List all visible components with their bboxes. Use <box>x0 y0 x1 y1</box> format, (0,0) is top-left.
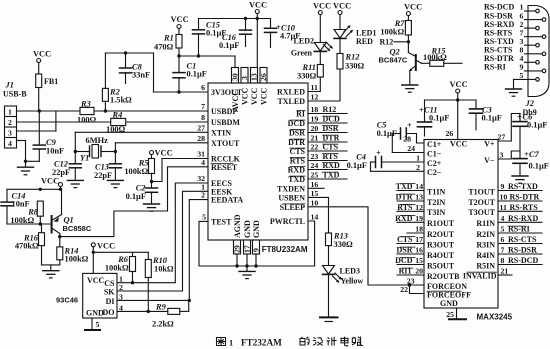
svg-text:USB-B: USB-B <box>3 90 27 99</box>
ground center <box>239 266 255 279</box>
svg-text:BC858C: BC858C <box>63 224 92 233</box>
net stub RS-DTR J2 pin4 <box>484 54 536 63</box>
capacitor C13 22pF <box>94 152 121 181</box>
resistor R8 100k <box>10 201 43 225</box>
capacitor C7 0.1uF polarized <box>513 150 549 176</box>
svg-text:LED3: LED3 <box>340 267 360 276</box>
IC 93C46 <box>56 273 117 318</box>
svg-text:VCC: VCC <box>313 2 331 11</box>
svg-text:+: + <box>376 149 381 158</box>
93C46 pin5 GND <box>85 318 100 330</box>
svg-text:8: 8 <box>201 113 205 122</box>
wire AVCC rail <box>179 56 235 68</box>
svg-text:LED2: LED2 <box>294 37 314 46</box>
net stub RS-CTS J2 pin8 <box>484 46 542 55</box>
svg-text:R4IN: R4IN <box>476 251 495 260</box>
resistor R7 100k <box>380 19 411 42</box>
svg-text:EEDATA: EEDATA <box>211 196 243 205</box>
net stub RS-DSR pin7 <box>498 246 542 255</box>
svg-text:T3OUT: T3OUT <box>468 208 495 217</box>
svg-text:4: 4 <box>8 139 12 148</box>
svg-text:6MHz: 6MHz <box>86 136 109 145</box>
ground under C7 <box>512 176 528 183</box>
svg-text:13: 13 <box>415 193 423 202</box>
resistor R14 100k <box>57 247 89 265</box>
svg-text:20: 20 <box>311 124 319 133</box>
svg-text:R4OUT: R4OUT <box>427 251 455 260</box>
svg-text:470kΩ: 470kΩ <box>15 242 39 251</box>
node VCC rail <box>92 251 95 254</box>
net stub RXD pin19 <box>395 214 424 223</box>
svg-text:10kΩ: 10kΩ <box>154 265 174 274</box>
FT bottom pin box 29 <box>233 240 242 266</box>
resistor R16 470k <box>15 224 45 265</box>
wire FORCEOFF jog <box>410 285 425 294</box>
svg-text:RS-DSR: RS-DSR <box>508 246 537 255</box>
svg-text:RS-RXD: RS-RXD <box>508 214 538 223</box>
node C16 tap <box>244 17 247 20</box>
svg-text:C7: C7 <box>529 150 540 159</box>
svg-text:21: 21 <box>311 134 319 143</box>
capacitor C1 0.1uF <box>173 56 207 92</box>
node Q1 collector / RESET / R14 <box>58 235 61 238</box>
net stub R12 (pin18) <box>308 105 347 114</box>
svg-text:14: 14 <box>415 182 423 191</box>
svg-text:12: 12 <box>415 203 423 212</box>
svg-text:26: 26 <box>259 73 268 81</box>
resistor R6 100k <box>105 252 136 282</box>
resistor R1 470ohm <box>154 34 182 57</box>
resistor R10 10k <box>145 252 174 311</box>
net stub RS-DCD pin8 <box>498 256 542 265</box>
wire DO row <box>117 310 168 312</box>
svg-text:RS-DCD: RS-DCD <box>508 256 538 265</box>
svg-text:VCC: VCC <box>260 87 269 105</box>
wire pin11 to R11 <box>308 77 320 92</box>
svg-text:16: 16 <box>415 246 423 255</box>
VCC symbol above R7 <box>404 3 422 21</box>
node C8 tap <box>124 51 127 54</box>
svg-text:VCC: VCC <box>33 50 51 59</box>
svg-text:1: 1 <box>416 154 420 163</box>
svg-text:V+: V+ <box>484 140 495 149</box>
svg-text:470Ω: 470Ω <box>154 43 174 52</box>
node R5/C2/RCCLK junction <box>150 180 153 183</box>
node R2-USBDP junction <box>104 109 107 112</box>
node GND17 on rail <box>245 264 248 267</box>
svg-text:VCC: VCC <box>249 1 267 10</box>
net stub RS-CTS pin6 <box>498 235 542 244</box>
wire 3V3OUT rail top <box>105 53 208 92</box>
wire C1+ pin28 <box>406 134 424 144</box>
connector J1 USB-B <box>3 81 27 149</box>
svg-text:15: 15 <box>311 189 319 198</box>
ground at J2 pin5 <box>506 89 522 96</box>
svg-text:R5IN: R5IN <box>476 261 495 270</box>
svg-text:VCC: VCC <box>41 177 59 186</box>
svg-text:Yellow: Yellow <box>341 277 364 286</box>
node VCC stem tap <box>256 17 259 20</box>
transistor Q1 BC858C <box>52 189 92 247</box>
svg-text:RS-CTS: RS-CTS <box>508 235 537 244</box>
svg-text:J2: J2 <box>525 99 534 108</box>
svg-text:VCC: VCC <box>87 276 105 285</box>
svg-text:11: 11 <box>500 203 507 212</box>
node AGND on rail <box>235 264 238 267</box>
svg-text:VCC: VCC <box>241 87 250 105</box>
svg-text:100kΩ: 100kΩ <box>65 255 89 264</box>
VCC symbol above FB1 <box>33 50 51 75</box>
node R6/CS junction <box>131 281 134 284</box>
node EEDATA/R9 junction <box>188 299 191 302</box>
svg-text:T2IN: T2IN <box>427 198 445 207</box>
svg-text:DO: DO <box>103 308 115 317</box>
svg-text:10nF: 10nF <box>12 200 30 209</box>
svg-text:VCC: VCC <box>171 15 189 24</box>
DB9 pin circles <box>536 9 546 81</box>
svg-text:9: 9 <box>252 248 261 252</box>
svg-text:30: 30 <box>231 73 240 81</box>
IC U1 FT8U232AM body <box>208 83 308 254</box>
transistor Q2 BC847C <box>379 42 422 85</box>
wire pin16 stub <box>308 187 324 189</box>
wire C2- pin2 <box>371 170 425 172</box>
svg-text:5: 5 <box>501 225 505 234</box>
svg-text:GND: GND <box>252 220 261 238</box>
svg-text:USBEN: USBEN <box>278 193 305 202</box>
svg-text:R1: R1 <box>163 34 174 43</box>
capacitor C4 0.1uF <box>347 149 382 172</box>
net stub RS-TXD J2 pin3 <box>484 37 536 46</box>
resistor R13 330 <box>326 232 354 250</box>
node emitter/VCC <box>59 188 62 191</box>
VCC symbol above LED1 <box>333 2 351 30</box>
svg-text:USBDM: USBDM <box>211 118 240 127</box>
FT right pin labels <box>270 88 306 227</box>
svg-text:3: 3 <box>8 129 12 138</box>
net stub RS-RXD J2 pin2 <box>484 20 536 29</box>
svg-text:100kΩ: 100kΩ <box>380 28 404 37</box>
MAX inside labels <box>427 140 497 308</box>
svg-text:18: 18 <box>415 225 423 234</box>
FT top pin box 3 VCC <box>240 68 249 84</box>
svg-text:AGND: AGND <box>233 214 242 238</box>
svg-text:R3OUT: R3OUT <box>427 240 455 249</box>
svg-text:RS-RI: RS-RI <box>484 63 506 72</box>
net stub RS-RI J2 pin9 <box>484 63 542 72</box>
LED1 RED <box>334 25 376 46</box>
svg-text:0.1µF: 0.1µF <box>482 114 502 123</box>
stub pin18 <box>407 225 424 234</box>
svg-text:FT8U232AM: FT8U232AM <box>262 245 308 254</box>
capacitor C11 0.1uF polarized <box>418 100 450 136</box>
FT bottom pin labels AGND GND GND <box>233 214 261 238</box>
net stub CTS pin17 <box>397 235 424 244</box>
net stub DTR pin13 <box>396 193 424 202</box>
svg-text:0.1µF: 0.1µF <box>126 192 146 201</box>
node C9 ground rail junction <box>24 160 27 163</box>
svg-text:7: 7 <box>201 102 205 111</box>
svg-text:BC847C: BC847C <box>379 56 408 65</box>
resistor R5 100k <box>124 159 154 182</box>
VCC symbol above R5 <box>150 149 173 159</box>
svg-text:GND: GND <box>243 220 252 238</box>
wire USBDM (J1 pin2 row) <box>17 121 209 123</box>
svg-text:VCC: VCC <box>450 80 468 89</box>
svg-text:VCC: VCC <box>155 149 173 158</box>
svg-text:3: 3 <box>500 151 504 160</box>
svg-text:20: 20 <box>415 267 423 276</box>
svg-text:VCC: VCC <box>97 242 115 251</box>
FT bottom pin box 9 <box>252 240 261 266</box>
svg-text:SK: SK <box>104 288 115 297</box>
wire pin26 stem <box>457 100 459 140</box>
svg-text:RESET: RESET <box>211 163 238 172</box>
svg-text:FB1: FB1 <box>44 77 58 86</box>
wire R16/R14 ground rail <box>42 264 60 266</box>
VCC symbol above LED2 <box>313 2 331 43</box>
svg-text:1: 1 <box>8 108 12 117</box>
svg-text:GND: GND <box>86 309 104 318</box>
svg-text:T3IN: T3IN <box>427 208 445 217</box>
svg-text:27: 27 <box>197 123 205 132</box>
net stub RS-TXD pin9 <box>498 182 542 191</box>
wire V- pin3 to C7 <box>498 151 520 160</box>
svg-text:XTOUT: XTOUT <box>211 139 240 148</box>
overline FORCEOFF <box>427 290 461 292</box>
svg-text:16: 16 <box>311 180 319 189</box>
wire EEDATA <box>117 200 208 301</box>
wire C2+ pin1 <box>382 161 425 163</box>
svg-text:RS-DTR: RS-DTR <box>510 193 540 202</box>
svg-text:INVALID: INVALID <box>463 271 497 280</box>
wire MAX VCC rail <box>425 99 477 101</box>
wire V+ pin27 to C6 <box>498 114 521 142</box>
MAX left cap pin numbers <box>403 135 420 172</box>
net stub DSR pin16 <box>396 246 424 255</box>
svg-text:12: 12 <box>311 93 319 102</box>
svg-text:R12: R12 <box>345 53 360 62</box>
VCC symbol above MAX <box>450 80 468 100</box>
FT top pin box 13 VCC <box>250 68 259 84</box>
capacitor C15 0.1uF <box>193 19 227 57</box>
svg-text:R1OUT: R1OUT <box>427 219 455 228</box>
VCC symbol at Q1 emitter <box>41 177 63 190</box>
svg-text:MAX3245: MAX3245 <box>477 313 513 322</box>
FT top pin box 30 AVCC <box>231 68 240 84</box>
svg-text:19: 19 <box>415 214 423 223</box>
svg-text:TXLED: TXLED <box>277 97 305 106</box>
svg-text:330Ω: 330Ω <box>297 72 317 81</box>
node VCC stem on rail <box>456 98 459 101</box>
net stub RS-RTS pin11 <box>498 203 542 212</box>
svg-text:5: 5 <box>520 71 524 80</box>
wire VCC stem to pin 13 <box>256 19 258 68</box>
svg-text:2: 2 <box>201 191 205 200</box>
svg-text:25: 25 <box>446 310 454 319</box>
net stub RI1 pin20 <box>397 267 424 276</box>
wire J2 pin5 to ground <box>514 71 536 89</box>
crystal Y1 6MHz <box>75 136 115 162</box>
svg-text:T1IN: T1IN <box>427 187 445 196</box>
svg-text:9: 9 <box>501 182 505 191</box>
svg-text:+: + <box>407 121 412 130</box>
net stub RTS (pin23) <box>308 152 347 161</box>
svg-text:R9: R9 <box>155 303 167 312</box>
LED2 Green <box>291 37 333 58</box>
svg-text:6: 6 <box>201 83 205 92</box>
net stub RS-RXD pin4 <box>498 214 542 223</box>
svg-text:26: 26 <box>446 129 454 138</box>
svg-text:C2+: C2+ <box>427 159 442 168</box>
wire Q1 base row <box>7 223 52 225</box>
wire Q1 top rail <box>7 188 61 190</box>
net stub RS-DCD J2 pin1 <box>484 3 536 12</box>
svg-text:GND: GND <box>440 299 458 308</box>
wire J1 pin3 to D+ riser <box>17 111 56 131</box>
ferrite bead FB1 <box>36 74 59 111</box>
svg-text:T2OUT: T2OUT <box>468 198 495 207</box>
svg-text:C2−: C2− <box>427 168 442 177</box>
net stub TXD pin14 <box>396 182 424 191</box>
capacitor C2 0.1uF <box>126 182 158 204</box>
svg-text:0.1µF: 0.1µF <box>377 129 397 138</box>
overlines FT right labels <box>283 111 305 204</box>
svg-text:5: 5 <box>202 212 206 221</box>
resistor R15 100k <box>422 47 463 67</box>
svg-text:2: 2 <box>119 283 123 292</box>
resistor R3 100ohm (series D+) <box>77 99 97 124</box>
node R1/C1/AVCC-rail junction <box>177 54 180 57</box>
resistor R11 330 <box>297 51 323 80</box>
svg-text:93C46: 93C46 <box>56 296 78 305</box>
node R8 top <box>39 188 42 191</box>
svg-text:25: 25 <box>311 171 319 180</box>
svg-text:27: 27 <box>498 133 506 142</box>
svg-text:10: 10 <box>311 198 319 207</box>
FT right pin numbers <box>311 83 319 222</box>
wire pin15 USBEN to R13 <box>308 197 329 233</box>
svg-text:7: 7 <box>501 246 505 255</box>
capacitor C6 0.1uF polarized <box>513 113 547 152</box>
svg-text:RED: RED <box>356 37 373 46</box>
svg-text:22: 22 <box>311 143 319 152</box>
wire RCCLK <box>152 159 209 182</box>
net stub DCD pin15 <box>395 256 424 265</box>
svg-text:0.1µF: 0.1µF <box>529 162 549 171</box>
wire EESK <box>117 191 208 291</box>
net stub RS-DTR pin10 <box>498 193 542 202</box>
svg-text:VCC: VCC <box>333 2 351 11</box>
svg-text:VCC: VCC <box>250 87 259 105</box>
svg-text:100kΩ: 100kΩ <box>423 53 447 62</box>
svg-text:28: 28 <box>403 135 411 144</box>
svg-text:J1: J1 <box>5 81 14 90</box>
ground under Q2 <box>402 85 418 92</box>
svg-text:0.1µF: 0.1µF <box>527 121 547 130</box>
svg-text:22pF: 22pF <box>94 171 112 180</box>
node GND9 on rail <box>254 264 257 267</box>
svg-text:3: 3 <box>240 76 249 80</box>
svg-text:10: 10 <box>500 193 508 202</box>
VCC symbol above R1 <box>171 15 189 35</box>
net stub DTR (pin21) <box>308 134 347 143</box>
wire VCC to 93C46 <box>92 252 94 273</box>
svg-text:0.1µF: 0.1µF <box>347 161 367 170</box>
svg-text:R5OUT: R5OUT <box>427 261 455 270</box>
VCC symbol at 93C46 <box>91 242 115 253</box>
node C1 bottom on 3V3OUT wire <box>177 90 180 93</box>
svg-text:2: 2 <box>8 118 12 127</box>
svg-text:R2OUT: R2OUT <box>427 230 455 239</box>
svg-text:+: + <box>517 113 522 122</box>
svg-text:4: 4 <box>501 214 505 223</box>
overline RESET <box>211 163 233 165</box>
ground (USB shell) <box>18 161 34 175</box>
svg-text:19: 19 <box>311 115 319 124</box>
capacitor C5 0.1uF <box>377 121 412 153</box>
node FB1-VBUS junction <box>38 109 41 112</box>
node R7/base junction <box>407 40 410 43</box>
svg-text:AVCC: AVCC <box>231 90 240 112</box>
VCC symbol top center <box>249 1 267 19</box>
FT left pin numbers <box>197 83 206 221</box>
net stub R12 to Q2 base <box>380 38 409 47</box>
svg-text:33nF: 33nF <box>132 71 150 80</box>
ground under C12 <box>67 180 83 187</box>
resistor R2 1.5k pullup <box>102 53 132 111</box>
svg-text:15: 15 <box>415 256 423 265</box>
net stub DSR (pin20) <box>308 124 347 133</box>
ground under Q1 bias <box>43 265 59 278</box>
svg-text:24: 24 <box>311 161 319 170</box>
caption: figure 1 FT232AM design circuit <box>217 337 364 348</box>
svg-text:DI: DI <box>106 297 115 306</box>
wire INVALID pin21 stub <box>498 267 512 276</box>
svg-text:0.1µF: 0.1µF <box>429 114 449 123</box>
resistor R12 330 <box>337 38 365 70</box>
FT left pin labels <box>211 88 243 226</box>
net stub TXD (pin25) <box>308 171 347 180</box>
connector J2 Db9 shell <box>523 6 550 117</box>
svg-text:VCC: VCC <box>450 140 468 149</box>
svg-text:RS-TXD: RS-TXD <box>508 182 538 191</box>
svg-text:VCC: VCC <box>404 3 422 12</box>
node crystal right <box>114 150 117 153</box>
capacitor C8 33nF <box>120 53 151 84</box>
svg-text:R1IN: R1IN <box>476 219 495 228</box>
svg-text:13: 13 <box>250 73 259 81</box>
capacitor C10 4.7uF polarized <box>265 19 301 48</box>
net stub DCD (pin19) <box>308 115 347 124</box>
LED3 Yellow <box>320 246 363 322</box>
svg-text:R4: R4 <box>112 111 123 120</box>
ground under C2 <box>144 204 160 211</box>
svg-text:4: 4 <box>201 158 205 167</box>
svg-text:R3: R3 <box>80 99 91 108</box>
svg-text:V−: V− <box>484 156 495 165</box>
svg-text:21: 21 <box>501 267 509 276</box>
svg-text:8: 8 <box>501 256 505 265</box>
node R10/DO junction <box>147 310 150 313</box>
svg-text:R3IN: R3IN <box>476 240 495 249</box>
net stub RTS pin12 <box>397 203 424 212</box>
svg-text:FT232AM: FT232AM <box>241 338 282 348</box>
svg-text:17: 17 <box>243 245 252 253</box>
net stub RS-RTS J2 pin7 <box>484 28 542 37</box>
svg-text:T1OUT: T1OUT <box>468 187 495 196</box>
svg-text:XTIN: XTIN <box>211 128 231 137</box>
